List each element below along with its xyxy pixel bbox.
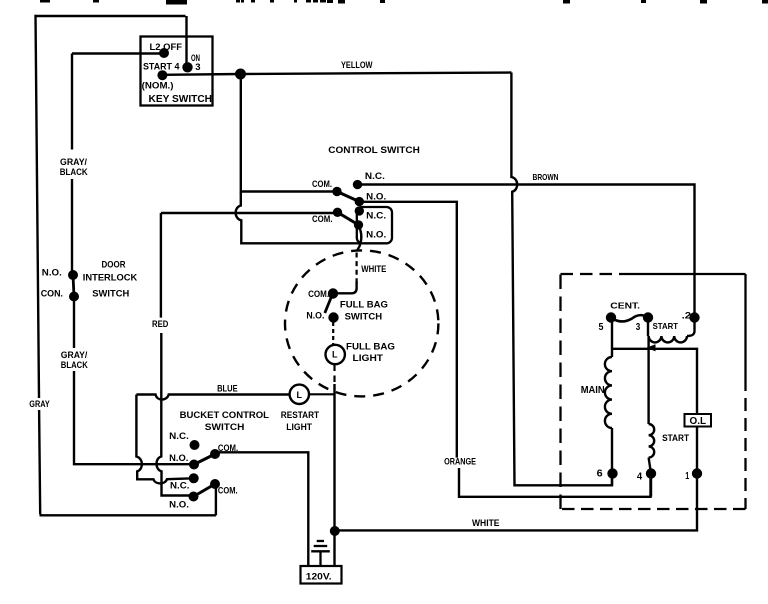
svg-text:MAIN: MAIN (581, 385, 605, 396)
svg-text:O.L: O.L (690, 416, 707, 427)
svg-text:(NOM.): (NOM.) (142, 81, 174, 91)
svg-text:GRAY: GRAY (29, 399, 49, 409)
svg-text:RED: RED (152, 319, 169, 329)
svg-text:4: 4 (637, 472, 643, 483)
svg-text:N.O.: N.O. (366, 230, 386, 240)
svg-text:KEY SWITCH: KEY SWITCH (149, 94, 213, 105)
svg-text:N.O.: N.O. (169, 453, 188, 463)
svg-text:L2 OFF: L2 OFF (150, 42, 183, 52)
svg-text:N.C.: N.C. (365, 171, 385, 181)
svg-text:N.O.: N.O. (169, 499, 189, 509)
svg-text:N.O.: N.O. (42, 268, 62, 278)
svg-text:START: START (662, 433, 689, 443)
svg-text:3: 3 (636, 322, 641, 333)
svg-text:BUCKET CONTROL: BUCKET CONTROL (180, 410, 270, 420)
svg-text:WHITE: WHITE (472, 518, 500, 528)
svg-text:GRAY/: GRAY/ (61, 350, 88, 360)
svg-text:BROWN: BROWN (533, 172, 559, 182)
svg-text:1: 1 (685, 471, 689, 482)
svg-text:N.C.: N.C. (366, 211, 386, 221)
svg-text:COM.: COM. (312, 214, 333, 224)
svg-text:RESTART: RESTART (281, 410, 320, 420)
svg-text:START 4: START 4 (143, 62, 179, 72)
svg-text:COM.: COM. (218, 486, 238, 496)
svg-text:YELLOW: YELLOW (341, 60, 373, 70)
svg-text:N.C.: N.C. (170, 481, 189, 491)
svg-text:SWITCH: SWITCH (345, 312, 383, 322)
svg-text:BLACK: BLACK (61, 360, 88, 370)
svg-text:INTERLOCK: INTERLOCK (83, 273, 138, 283)
svg-text:N.O.: N.O. (366, 191, 386, 201)
svg-text:N.O.: N.O. (306, 311, 324, 321)
svg-text:CENT.: CENT. (610, 301, 640, 311)
svg-text:N.C.: N.C. (169, 431, 189, 441)
svg-text:CONTROL SWITCH: CONTROL SWITCH (328, 145, 420, 156)
svg-text:L: L (332, 350, 338, 360)
svg-text:LIGHT: LIGHT (286, 422, 312, 432)
svg-text:COM.: COM. (312, 179, 332, 189)
svg-text:L: L (297, 390, 303, 400)
svg-text:5: 5 (599, 322, 604, 333)
svg-text:ORANGE: ORANGE (444, 457, 476, 467)
svg-text:BLACK: BLACK (60, 167, 88, 177)
svg-text:GRAY/: GRAY/ (60, 157, 87, 167)
svg-text:DOOR: DOOR (102, 260, 126, 270)
svg-text:.2: .2 (682, 311, 692, 321)
svg-text:COM.: COM. (308, 289, 329, 299)
svg-text:120V.: 120V. (306, 572, 332, 583)
svg-text:SWITCH: SWITCH (92, 289, 129, 299)
svg-text:WHITE: WHITE (361, 264, 386, 274)
svg-text:COM.: COM. (218, 443, 238, 453)
svg-text:6: 6 (597, 469, 603, 480)
svg-text:START: START (653, 321, 679, 331)
svg-text:3: 3 (195, 62, 200, 72)
svg-text:SWITCH: SWITCH (205, 422, 245, 432)
svg-text:LIGHT: LIGHT (353, 353, 384, 363)
svg-text:BLUE: BLUE (217, 384, 238, 394)
svg-text:FULL BAG: FULL BAG (346, 342, 395, 352)
svg-text:CON.: CON. (41, 289, 63, 299)
svg-text:FULL BAG: FULL BAG (340, 299, 388, 309)
